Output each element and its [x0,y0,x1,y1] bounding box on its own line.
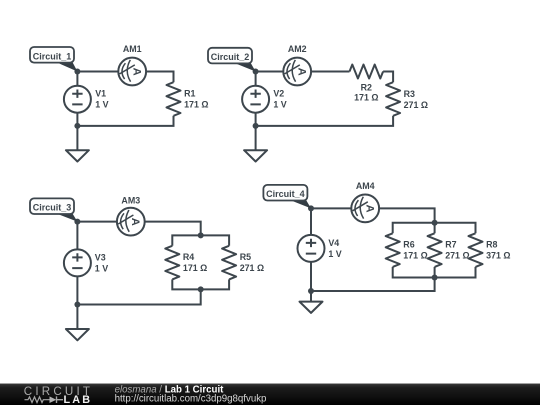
wire ground stem circuit 2 [255,126,257,150]
svg-text:371 Ω: 371 Ω [486,251,510,261]
voltage source V2 [242,86,269,113]
svg-text:R3: R3 [404,89,415,99]
voltage source V1 [64,86,91,113]
wire top rail R6 R8 [393,223,476,234]
node junction dot bank top circuit 4 [432,220,438,226]
node bottom junction dot circuit 1 [74,123,80,129]
wire V1 branch vertical [76,72,78,126]
wire R1 bottom to bottom node [77,116,173,126]
ground circuit 3 [66,329,89,340]
wire V2 branch vertical [255,72,257,126]
wire R7 bottom lead [434,267,436,278]
ground circuit 2 [244,150,267,161]
ammeter AM1 [118,58,146,86]
svg-text:V2: V2 [273,89,284,99]
wire ground stem circuit 4 [310,291,312,302]
svg-text:R4: R4 [183,252,194,262]
svg-text:http://circuitlab.com/c3dp9g8q: http://circuitlab.com/c3dp9g8qfvukp [115,394,267,405]
node junction dot bank bottom circuit 4 [432,275,438,281]
net label Circuit_3 [30,198,74,214]
wire top rail R4 R5 [172,235,229,245]
svg-text:271 Ω: 271 Ω [240,263,264,273]
wire bank bottom to V3 bottom node [77,289,200,304]
node A1 junction dot [74,69,80,75]
resistor R1 [167,82,181,116]
wire R3 bottom to bottom node circuit 2 [256,116,394,126]
svg-text:171 Ω: 171 Ω [183,263,207,273]
wire from node A1 to R1 top [77,72,173,83]
resistor R3 [386,82,400,116]
svg-text:171 Ω: 171 Ω [403,251,427,261]
resistor R5 [222,246,236,280]
svg-text:R7: R7 [445,240,456,250]
svg-text:R6: R6 [403,240,414,250]
svg-text:LAB: LAB [64,394,93,405]
wire R7 top lead [434,223,436,234]
net flag tail Circuit_4 [288,199,311,208]
ammeter AM4 [351,195,379,223]
svg-text:AM4: AM4 [356,181,375,191]
net flag tail Circuit_3 [54,213,77,222]
resistor R8 [469,233,483,267]
node junction dot bank top circuit 3 [198,232,204,238]
logo diode symbol [50,396,57,403]
node A4 junction dot [308,205,314,211]
net label Circuit_1 [30,47,74,63]
svg-text:R8: R8 [486,240,497,250]
wire from node A2 to R2 left [256,71,350,73]
svg-text:AM1: AM1 [123,44,142,54]
svg-text:Circuit_3: Circuit_3 [33,203,72,213]
svg-text:1 V: 1 V [328,249,341,259]
wire ground stem circuit 3 [76,305,78,330]
ammeter AM3 [117,208,145,236]
node A2 junction dot [253,69,259,75]
resistor R7 [428,233,442,267]
wire R2 right to R3 top [383,72,393,83]
node junction dot V4 bottom [308,288,314,294]
net flag tail Circuit_1 [54,61,77,71]
resistor R6 [386,233,400,267]
svg-text:AM3: AM3 [121,195,140,205]
svg-text:171 Ω: 171 Ω [184,100,208,110]
wire V3 branch vertical [76,222,78,305]
svg-text:Circuit_2: Circuit_2 [211,52,250,62]
voltage source V3 [64,249,91,276]
net label Circuit_4 [263,185,307,201]
svg-text:V4: V4 [328,238,339,248]
voltage source V4 [298,235,325,262]
wire ground stem circuit 1 [76,126,78,150]
ground circuit 1 [66,150,89,161]
ground circuit 4 [300,302,323,313]
wire from node A3 to parallel bank top [77,222,200,236]
wire bottom rail R6 R8 [393,267,476,278]
svg-text:1 V: 1 V [95,263,108,273]
svg-text:AM2: AM2 [288,44,307,54]
node junction dot bank bottom circuit 3 [198,286,204,292]
wire bank bottom to V4 bottom node [311,278,435,292]
svg-text:Circuit_4: Circuit_4 [266,189,305,199]
node A3 junction dot [74,219,80,225]
wire from node A4 to parallel bank top [311,208,435,222]
svg-text:R5: R5 [240,252,251,262]
svg-text:171 Ω: 171 Ω [354,93,378,103]
svg-text:1 V: 1 V [273,100,286,110]
svg-text:271 Ω: 271 Ω [404,100,428,110]
resistor R2 [350,65,384,79]
ammeter AM2 [283,58,311,86]
logo resistor squiggle [25,397,50,403]
net label Circuit_2 [208,48,252,64]
wire bottom rail R4 R5 [172,279,229,289]
net flag tail Circuit_2 [233,62,256,71]
svg-text:R2: R2 [361,82,372,92]
svg-text:Circuit_1: Circuit_1 [33,51,72,61]
node bottom junction dot circuit 2 [253,123,259,129]
svg-text:V1: V1 [95,89,106,99]
svg-text:271 Ω: 271 Ω [445,251,469,261]
svg-text:R1: R1 [184,89,195,99]
svg-text:V3: V3 [95,252,106,262]
wire V4 branch vertical [310,208,312,291]
node junction dot V3 bottom [74,302,80,308]
svg-text:1 V: 1 V [95,100,108,110]
resistor R4 [165,246,179,280]
